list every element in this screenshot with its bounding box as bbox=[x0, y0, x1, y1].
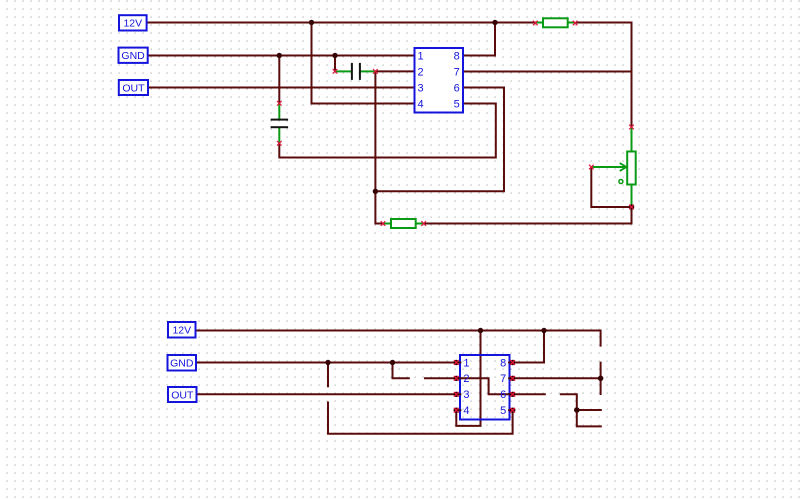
wire 12V rail right segment + right vertical to pot bbox=[577, 23, 632, 127]
resistor R2 bbox=[381, 219, 426, 228]
svg-text:8: 8 bbox=[500, 357, 506, 369]
node A junction bbox=[373, 189, 378, 194]
svg-text:3: 3 bbox=[418, 82, 424, 94]
pin connection marker 5 (U2) bbox=[510, 408, 515, 413]
node 12V label (top) bbox=[119, 15, 147, 30]
svg-text:5: 5 bbox=[500, 405, 506, 417]
svg-text:4: 4 bbox=[418, 98, 424, 110]
pin stubs (U2) bbox=[455, 363, 515, 411]
wire OUT to pin3 (bottom) bbox=[197, 393, 457, 395]
svg-text:7: 7 bbox=[454, 66, 460, 78]
svg-text:6: 6 bbox=[500, 389, 506, 401]
capacitor C2 bbox=[271, 101, 289, 145]
wire pin8 to 12V rail bbox=[463, 23, 495, 56]
svg-text:5: 5 bbox=[454, 98, 460, 110]
wire pin6 net after gap bbox=[561, 394, 577, 410]
node OUT label (bottom) bbox=[168, 387, 197, 402]
wire pin6 down to node A bbox=[375, 88, 504, 192]
wire node A down to R2 bbox=[375, 191, 382, 223]
pin connection marker 2 (U2) bbox=[454, 376, 459, 381]
wire GND junction down to C1 bbox=[334, 56, 336, 71]
svg-text:12V: 12V bbox=[123, 18, 142, 30]
capacitor C1 bbox=[333, 63, 377, 80]
wire stub pot bottom net bbox=[577, 410, 601, 426]
svg-text:1: 1 bbox=[418, 50, 424, 62]
node OUT label (top) bbox=[119, 80, 148, 95]
pin connection marker 1 (U2) bbox=[454, 360, 459, 365]
wire pin2 node down to node A bbox=[374, 72, 376, 191]
wire pin8 to 12V (bottom) bbox=[513, 331, 544, 363]
junction GND/pin2 branch (bottom) bbox=[390, 360, 395, 365]
wire cap gap to pin2 bbox=[425, 377, 456, 379]
wire pot wiper return bbox=[591, 168, 629, 207]
svg-text:OUT: OUT bbox=[122, 82, 145, 94]
svg-text:2: 2 bbox=[463, 373, 469, 385]
svg-text:12V: 12V bbox=[172, 324, 191, 336]
junction pin7/pot net (bottom) bbox=[598, 376, 604, 382]
svg-text:2: 2 bbox=[418, 66, 424, 78]
pin connection marker 3 (U2) bbox=[454, 392, 459, 397]
pin connection marker 7 (U2) bbox=[510, 376, 515, 381]
wire stub wiper net bbox=[577, 409, 601, 411]
wire 12V to pin4 bbox=[312, 23, 415, 104]
wire pin7 right (bottom) bbox=[513, 377, 601, 379]
junction pin6 net (bottom) bbox=[574, 407, 580, 413]
potentiometer VR1 bbox=[589, 125, 635, 206]
wire pin2 to pin6 through IC bbox=[456, 378, 512, 394]
wire 12V rail left segment bbox=[147, 22, 535, 24]
node 12V label (bottom) bbox=[168, 322, 196, 338]
op-amp U1 (8-pin IC, top) bbox=[415, 48, 464, 113]
wire cap gap to pin5 bbox=[328, 403, 513, 434]
wire GND junction to pin2 (cap gap) bbox=[393, 363, 409, 379]
junction GND/C2 bbox=[277, 53, 282, 58]
wire GND junction down to C2 bbox=[278, 56, 280, 103]
svg-text:OUT: OUT bbox=[171, 389, 194, 401]
junction 12V/pin8 (bottom) bbox=[541, 328, 546, 333]
svg-text:3: 3 bbox=[463, 389, 469, 401]
junction 12V/pin8 bbox=[492, 20, 497, 25]
svg-text:1: 1 bbox=[463, 357, 469, 369]
node GND label (top) bbox=[119, 48, 148, 63]
svg-text:GND: GND bbox=[121, 50, 145, 62]
junction GND/cap branch (bottom) bbox=[325, 360, 330, 365]
wire stub pot body net bbox=[600, 363, 602, 394]
wire C2 bottom to pin5 bbox=[279, 104, 496, 158]
junction 12V/pin4 (bottom) bbox=[478, 328, 483, 333]
wire GND junction down (cap gap) bbox=[327, 363, 329, 387]
pin connection marker 6 (U2) bbox=[510, 392, 515, 397]
wire 12V rail (bottom) bbox=[196, 331, 601, 346]
wire pin6 right segment bbox=[513, 393, 545, 395]
wire OUT to pin3 bbox=[148, 87, 415, 89]
junction pot bottom bbox=[629, 204, 635, 210]
junction GND/C1 bbox=[332, 53, 337, 58]
svg-text:4: 4 bbox=[463, 405, 469, 417]
pin connection marker 4 (U2) bbox=[454, 408, 459, 413]
junction 12V/pin4 bbox=[309, 20, 314, 25]
wire pin7 to pot top net bbox=[463, 71, 632, 73]
resistor R1 bbox=[533, 18, 577, 27]
wire 12V to pin4 (bottom, across IC) bbox=[456, 331, 480, 426]
wire R2 right to pot bottom junction bbox=[425, 208, 632, 224]
wire C1 right terminal to pin2 bbox=[376, 70, 415, 72]
svg-text:8: 8 bbox=[454, 50, 460, 62]
wire GND to pin1 bbox=[148, 55, 415, 57]
pin connection marker 8 (U2) bbox=[510, 360, 515, 365]
op-amp U2 (8-pin IC, bottom) bbox=[460, 355, 510, 420]
wire GND to pin1 (bottom) bbox=[196, 362, 456, 364]
svg-text:GND: GND bbox=[170, 357, 194, 369]
svg-text:7: 7 bbox=[500, 373, 506, 385]
node GND label (bottom) bbox=[168, 355, 197, 371]
svg-text:6: 6 bbox=[454, 82, 460, 94]
